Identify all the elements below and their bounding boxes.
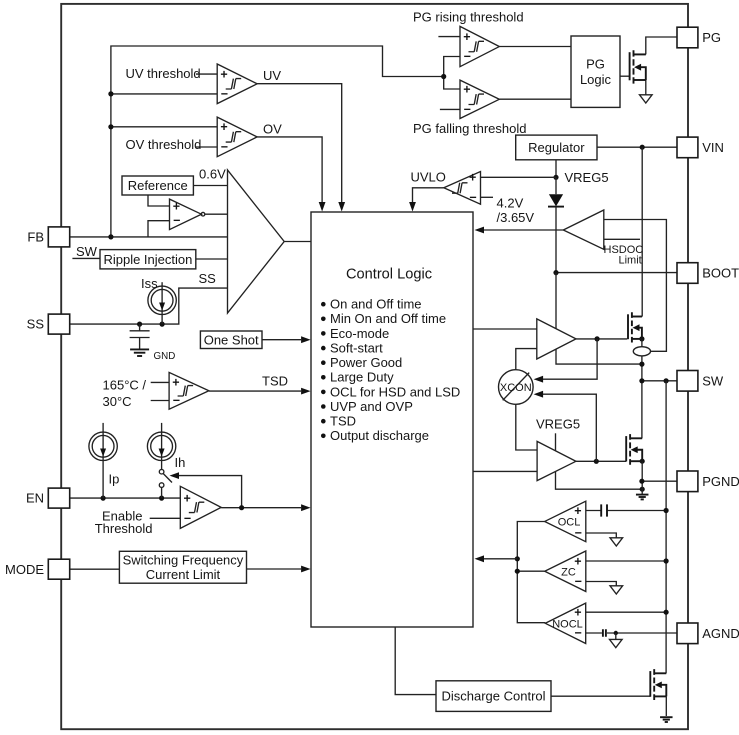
wire EN comparator output feedback to Ih switch (179, 476, 242, 508)
transistor PG open-drain FET (630, 50, 646, 83)
svg-text:One Shot: One Shot (204, 332, 259, 347)
transistor Q3 discharge FET (650, 669, 666, 700)
wire SW node to SW pin (642, 380, 677, 382)
pin PGND (677, 471, 739, 492)
svg-text:PGND: PGND (702, 474, 739, 489)
svg-text:OCL: OCL (558, 516, 581, 528)
wire PGND node to PGND pin (642, 480, 677, 482)
wire NOCL plus input (586, 611, 666, 613)
wire EN pin to EN comparator (70, 497, 181, 499)
junction SW at discharge branch (664, 378, 669, 383)
wire HSDOC sense from oval to comparator input (604, 220, 667, 352)
svg-text:VIN: VIN (702, 140, 724, 155)
wire TSD plus stub (151, 381, 169, 383)
wire EN comparator output to Control Logic (221, 507, 301, 509)
junction VREG5 (553, 175, 558, 180)
wire FB pin to summing comparator input (70, 236, 228, 238)
comparator UV detect (217, 64, 257, 104)
wire discharge FET source to ground (665, 696, 667, 716)
wire comparator bus OCL to NOCL (517, 522, 545, 623)
svg-text:UVLO: UVLO (411, 169, 446, 184)
svg-text:MODE: MODE (5, 562, 44, 577)
svg-text:FB: FB (27, 230, 44, 245)
wire Switching Frequency block to Control Logic (247, 568, 302, 570)
current source Ih (147, 432, 185, 470)
wire FB sense riser and top run to PG comparators (111, 46, 444, 237)
junction FB node (108, 234, 113, 239)
wire Discharge Control to discharge FET gate (551, 695, 651, 697)
svg-text:UV: UV (263, 68, 281, 83)
svg-text:Ip: Ip (109, 472, 120, 487)
svg-text:Large Duty: Large Duty (330, 370, 394, 385)
svg-text:ZC: ZC (561, 566, 576, 578)
wire HS gate node to XCON input (543, 339, 597, 379)
svg-text:Soft-start: Soft-start (330, 341, 383, 356)
wire error amp output to summing comparator (205, 213, 228, 215)
wire UV output to Control Logic (257, 84, 342, 203)
pin PG (677, 27, 721, 48)
svg-text:XCON: XCON (500, 382, 532, 394)
wire BOOT rail to BOOT pin (556, 272, 677, 274)
svg-text:Power Good: Power Good (330, 355, 402, 370)
svg-text:TSD: TSD (330, 414, 356, 429)
svg-text:Regulator: Regulator (528, 140, 585, 155)
comparator OCL (545, 501, 586, 542)
current source Iss (141, 276, 176, 314)
svg-text:EN: EN (26, 491, 44, 506)
capacitor OCL sense (601, 504, 607, 516)
svg-text:+: + (463, 82, 470, 96)
wire OCL plus input with capacitor (586, 510, 666, 512)
svg-text:Current Limit: Current Limit (146, 567, 221, 582)
pin BOOT (677, 263, 739, 284)
svg-text:BOOT: BOOT (702, 266, 739, 281)
wire PG rising comparator output (499, 46, 571, 48)
junction NOCL plus tap (664, 610, 669, 615)
svg-text:+: + (463, 30, 470, 44)
svg-text:+: + (173, 199, 180, 213)
wire LS gate node to XCON input (543, 394, 596, 461)
wire SW stub to Ripple Injection (72, 257, 100, 259)
amplifier HS gate driver (537, 319, 576, 359)
pin SW (677, 371, 724, 392)
svg-text:PG: PG (586, 57, 605, 72)
svg-text:OV: OV (263, 122, 282, 137)
svg-text:−: − (173, 214, 180, 228)
offset marker NOCL minus (603, 629, 606, 637)
wire PG Logic to PG FET gate (620, 75, 630, 77)
junction FB/UV (108, 91, 113, 96)
wire HSDOC output arrow to Control Logic (484, 229, 563, 231)
svg-text:OCL for HSD and LSD: OCL for HSD and LSD (330, 384, 460, 399)
wire BOOT to HS driver supply (555, 273, 557, 329)
wire PG falling threshold stub (440, 108, 460, 110)
svg-text:NOCL: NOCL (552, 618, 583, 630)
current sensor oval (633, 347, 650, 356)
block Discharge Control (436, 681, 551, 712)
junction bus arrow tap (515, 556, 520, 561)
svg-text:−: − (184, 511, 191, 525)
wire Control Logic to LS driver input (473, 470, 537, 472)
junction HS gate node (595, 336, 600, 341)
wire One Shot to Control Logic (262, 339, 301, 341)
junction LS gate node (594, 459, 599, 464)
wire VREG5 to UVLO plus input (481, 176, 557, 178)
list item OCL for HSD and LSD (321, 384, 460, 399)
svg-text:PG falling threshold: PG falling threshold (413, 121, 526, 136)
svg-text:PG rising threshold: PG rising threshold (413, 9, 524, 24)
svg-text:+: + (220, 120, 227, 134)
svg-text:SW: SW (76, 244, 98, 259)
svg-text:Eco-mode: Eco-mode (330, 326, 389, 341)
svg-text:+: + (172, 376, 179, 390)
ground signal ZC (610, 586, 623, 594)
svg-text:+: + (220, 67, 227, 81)
svg-text:Switching Frequency: Switching Frequency (123, 553, 244, 568)
pin AGND (677, 623, 739, 644)
svg-text:/3.65V: /3.65V (497, 210, 535, 225)
svg-text:Control Logic: Control Logic (346, 266, 432, 282)
ground signal NOCL (610, 639, 623, 647)
wire PG FET drain to PG pin (634, 37, 678, 54)
comparator PG rising (460, 26, 499, 66)
wire VIN rail to HS FET drain (634, 147, 643, 316)
junction SW at FET leg (639, 378, 644, 383)
wire PG FET source to ground (645, 80, 647, 95)
svg-text:SS: SS (199, 271, 217, 286)
transistor Q2 low-side FET (626, 434, 642, 465)
junction SS capacitor tap (137, 322, 142, 327)
wire Reference 0.6V to summing comparator (193, 185, 227, 187)
wire SW branch to comparators and discharge FET (654, 381, 666, 674)
junction LS source node (640, 459, 645, 464)
wire LS driver output to LS FET gate (576, 460, 626, 462)
block Ripple Injection (100, 250, 196, 269)
wire Control Logic to HS driver input (473, 328, 537, 330)
ground power soft start cap (130, 348, 149, 350)
wire TSD output to Control Logic (209, 390, 301, 392)
list item UVP and OVP (321, 399, 413, 414)
wire XCON to HS driver input (516, 349, 537, 370)
block Switching Frequency Current Limit (119, 551, 246, 583)
junction ZC plus tap (664, 558, 669, 563)
comparator ZC (545, 551, 586, 592)
comparator OV detect (217, 117, 257, 157)
wire TSD minus stub (151, 400, 169, 402)
transistor Q1 high-side FET (628, 312, 642, 342)
wire Iss source shaft (161, 282, 163, 324)
switch Ih hysteresis (159, 469, 172, 498)
svg-text:165°C /: 165°C / (103, 378, 147, 393)
svg-text:30°C: 30°C (103, 394, 132, 409)
wire UV threshold stub (196, 73, 217, 75)
junction sensor bottom (639, 362, 644, 367)
wire FB to UV comparator minus input (111, 93, 217, 95)
list item Min On and Off time (321, 311, 446, 326)
list item Output discharge (321, 428, 429, 443)
svg-text:4.2V: 4.2V (497, 195, 524, 210)
wire UVLO minus threshold stub (481, 196, 494, 198)
wire NOCL ground stub (615, 633, 617, 639)
capacitor soft start (130, 324, 150, 349)
comparator PG falling (460, 80, 499, 118)
wire NOCL minus input (586, 632, 677, 634)
wire PG rising threshold stub (438, 36, 460, 38)
junction Ih tap (159, 496, 164, 501)
ground power LS FET (636, 494, 649, 496)
list item Soft-start (321, 341, 383, 356)
junction NOCL ground tap (614, 631, 618, 635)
comparator TSD thermal (169, 372, 209, 409)
svg-text:Min On and Off time: Min On and Off time (330, 311, 446, 326)
junction PG comparator input node (441, 74, 446, 79)
svg-text:OV threshold: OV threshold (126, 137, 202, 152)
wire bus arrow to Control Logic (484, 558, 517, 560)
wire OCL minus to ground (586, 533, 617, 538)
ground signal PG FET (640, 95, 653, 103)
junction Ip tap (101, 496, 106, 501)
svg-text:+: + (469, 171, 476, 185)
svg-text:Discharge Control: Discharge Control (441, 689, 545, 704)
wire FB to OV comparator plus input (111, 126, 217, 128)
wire XCON to LS driver input (516, 405, 537, 450)
block Reference (122, 176, 193, 195)
list item Eco-mode (321, 326, 389, 341)
wire ZC output to bus (517, 570, 544, 572)
wire MODE pin to Switching Frequency block (70, 568, 120, 570)
svg-text:+: + (184, 491, 191, 505)
wire FB to PG rising comparator minus input (444, 57, 460, 77)
svg-text:VREG5: VREG5 (565, 170, 609, 185)
pin SS (27, 314, 70, 334)
svg-text:Limit: Limit (619, 254, 642, 266)
svg-text:UVP and OVP: UVP and OVP (330, 399, 413, 414)
pin VIN (677, 137, 724, 158)
wire ZC minus to ground (586, 582, 617, 586)
wire error amp minus to FB (148, 221, 170, 237)
svg-text:AGND: AGND (702, 626, 739, 641)
wire Reference to error amp plus input (148, 195, 170, 206)
junction OCL plus tap (664, 508, 669, 513)
wire HSDOC Limit threshold stub (604, 238, 640, 240)
svg-text:PG: PG (702, 30, 721, 45)
wire PG falling comparator output (499, 98, 571, 100)
wire LS FET source to power ground (641, 461, 643, 494)
list item Large Duty (321, 370, 394, 385)
wire HS driver lower rail to SW node (556, 349, 642, 364)
wire Ripple Injection output to summing comparator (196, 258, 228, 260)
comparator HSDOC (563, 210, 604, 249)
wire Ih source shaft (161, 423, 163, 470)
wire Ip source shaft (102, 423, 104, 498)
wire VREG5 stub to LS driver (555, 433, 557, 451)
comparator summing main (228, 170, 285, 313)
wire HS FET source through sensor to LS FET drain (630, 339, 642, 438)
svg-text:GND: GND (154, 351, 176, 362)
wire Regulator to VIN pin (597, 146, 677, 148)
junction LS rail tie (640, 487, 645, 492)
block PG Logic (571, 36, 620, 107)
svg-text:On and Off time: On and Off time (330, 297, 422, 312)
svg-text:0.6V: 0.6V (199, 167, 226, 182)
wire summing comparator output to Control Logic (284, 241, 311, 243)
junction Iss tap (160, 322, 165, 327)
svg-text:Reference: Reference (128, 178, 188, 193)
wire Enable Threshold stub (150, 517, 181, 519)
block One Shot (200, 331, 262, 349)
junction bus ZC tap (515, 569, 520, 574)
svg-text:Ripple Injection: Ripple Injection (103, 252, 192, 267)
transformer XCON block (499, 370, 534, 405)
diode VREG5 to BOOT (548, 177, 564, 272)
wire SS pin to summing comparator (70, 288, 228, 324)
comparator NOCL (545, 603, 585, 643)
comparator EN enable (180, 486, 221, 528)
svg-text:Ih: Ih (175, 455, 186, 470)
svg-text:Logic: Logic (580, 72, 612, 87)
block Control Logic (311, 212, 473, 627)
svg-text:SS: SS (27, 317, 45, 332)
svg-text:TSD: TSD (262, 373, 288, 388)
amplifier LS gate driver (537, 441, 576, 480)
wire FB to PG falling comparator plus input (444, 77, 460, 90)
svg-text:−: − (469, 190, 476, 204)
svg-text:SW: SW (702, 373, 724, 388)
wire Regulator output VREG5 (555, 160, 557, 177)
junction PGND node (639, 479, 644, 484)
pin FB (27, 227, 69, 247)
pin EN (26, 488, 70, 508)
list item On and Off time (321, 297, 422, 312)
list item Power Good (321, 355, 402, 370)
junction BOOT rail (553, 270, 558, 275)
ground power discharge FET (660, 716, 673, 718)
ground signal OCL (610, 538, 623, 546)
current source Ip (89, 432, 119, 486)
svg-text:UV threshold: UV threshold (126, 66, 201, 81)
junction HS source node (639, 336, 644, 341)
wire LS driver lower rail to PGND node (556, 471, 643, 489)
wire OV threshold stub (196, 146, 217, 148)
list item TSD (321, 414, 356, 429)
comparator UVLO (444, 171, 481, 205)
svg-text:Output discharge: Output discharge (330, 428, 429, 443)
block Regulator (516, 135, 597, 160)
op-amp error amplifier (170, 199, 205, 230)
svg-text:Threshold: Threshold (95, 521, 153, 536)
wire UVLO output to Control Logic (413, 188, 444, 203)
pin MODE (5, 559, 70, 579)
svg-text:VREG5: VREG5 (536, 417, 580, 432)
wire ZC plus input (586, 560, 666, 562)
junction VIN rail (640, 145, 645, 150)
junction FB/OV (108, 124, 113, 129)
wire OV output to Control Logic (257, 137, 322, 203)
svg-text:Iss: Iss (141, 276, 158, 291)
wire Control Logic to Discharge Control (395, 627, 436, 695)
wire HS driver output to HS FET gate (576, 338, 627, 340)
junction EN output node (239, 505, 244, 510)
